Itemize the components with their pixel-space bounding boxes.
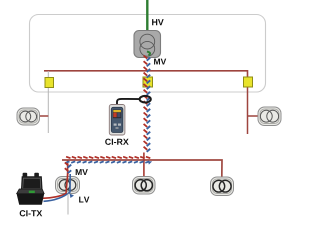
wire HV incoming (green) bbox=[146, 0, 148, 33]
wire MV busbar (red) bbox=[44, 71, 248, 78]
load L3 (bottom centre) bbox=[133, 177, 156, 195]
arrowhead blue at T2 output bbox=[70, 194, 75, 199]
wire left feeder drop (gray) bbox=[47, 71, 49, 133]
switch S2 (yellow, centre) bbox=[143, 77, 153, 87]
wire right load stub (red) bbox=[248, 115, 259, 117]
arrowhead blue at feeder corner bbox=[148, 161, 152, 164]
label MV (substation busbar) bbox=[154, 59, 166, 65]
transmitter CI-TX (black case) bbox=[17, 173, 45, 205]
transformer HV/MV T1 bbox=[134, 31, 161, 58]
label CI-RX bbox=[105, 139, 129, 145]
wire green stub at transformer output bbox=[147, 52, 150, 56]
wire bottom MV feeder (red) bbox=[62, 160, 222, 178]
signal path twist: MV riser (red/blue) bbox=[144, 56, 151, 152]
switch S3 (yellow, right) bbox=[244, 77, 253, 87]
label LV bbox=[79, 197, 89, 203]
wire right feeder drop (red) bbox=[247, 87, 249, 134]
wire LV outgoing (gray) bbox=[67, 194, 69, 215]
wire drop to transformer T2 (solid red) bbox=[67, 160, 69, 176]
wire riser + drop to load L3 (solid red) bbox=[143, 153, 145, 177]
inductive coupler loop bbox=[140, 96, 151, 103]
load L4 (bottom right) bbox=[211, 177, 234, 196]
substation boundary box bbox=[30, 15, 266, 93]
label HV bbox=[152, 19, 164, 25]
label MV (at T2) bbox=[76, 169, 88, 175]
switch S1 (yellow, left) bbox=[45, 78, 54, 88]
wire blue conductor through T2 to CI-TX bbox=[44, 174, 71, 201]
cable CI-RX to coupler bbox=[117, 99, 140, 105]
wire left load stub (red) bbox=[40, 115, 49, 117]
wire red conductor through T2 to CI-TX bbox=[43, 173, 68, 198]
signal path twist: along feeder (red/blue) bbox=[66, 157, 151, 163]
receiver CI-RX bbox=[109, 105, 125, 136]
signal path twist: drop to T2 bbox=[65, 163, 71, 174]
label CI-TX bbox=[20, 210, 43, 216]
transformer MV/LV T2 bbox=[56, 177, 80, 194]
load L1 (left MV customer) bbox=[17, 108, 40, 125]
load L2 (right MV customer) bbox=[258, 107, 281, 126]
